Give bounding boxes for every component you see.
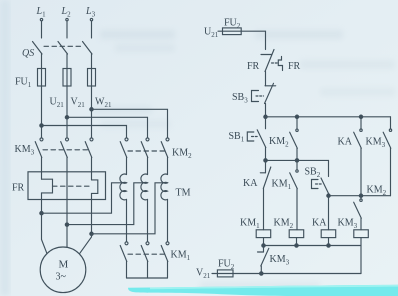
bleed-through smudge top mid	[92, 30, 395, 290]
wire motor lead 3	[80, 234, 92, 254]
cyan strip bottom	[128, 285, 398, 296]
contact KM1 aux (NO)	[290, 160, 298, 229]
FR thermal actuator symbol	[272, 57, 283, 71]
switch QS pole 3 blade	[83, 42, 93, 55]
node L1 terminal	[40, 18, 42, 20]
switch QS pole 1 blade	[33, 42, 43, 55]
wire QS1 to FU1	[41, 54, 43, 69]
svg-text:KA: KA	[338, 137, 353, 148]
wire tap line 1 to TM	[42, 183, 127, 213]
contact KA aux (NO right)	[354, 117, 362, 196]
wire L3 to QS	[91, 21, 93, 38]
FR heater element phase 3	[92, 180, 98, 234]
node top bus KA tap	[359, 115, 362, 118]
wire L2 to QS	[66, 21, 68, 38]
thermal relay FR box	[28, 172, 106, 200]
autotransformer TM coil 1	[120, 158, 127, 242]
fuse FU1 phase 2	[63, 69, 71, 87]
fuse FU2 bottom	[217, 270, 233, 277]
wire KM2 coil to bus	[296, 238, 298, 246]
wire KM1 coil to bus	[263, 238, 265, 246]
node L3 terminal	[90, 18, 92, 20]
node A dot	[264, 115, 267, 118]
wire motor lead 2	[66, 225, 68, 248]
node bus C SB2	[327, 194, 330, 197]
wire FU2 to FR contact	[241, 31, 265, 49]
button SB1 (NO start)	[257, 117, 266, 161]
coil KA	[321, 230, 336, 238]
svg-text:QS: QS	[22, 48, 34, 59]
wire V21 phase 2 vertical	[66, 86, 68, 138]
wire coil bus	[264, 245, 362, 247]
contact KM3 (NC interlock bottom)	[258, 246, 269, 274]
contactor KM3 pole 3	[85, 138, 93, 158]
switch QS pole 2 blade	[58, 42, 68, 55]
wire motor lead 1	[42, 213, 48, 254]
wire V21 to FU2	[212, 273, 217, 275]
thermal contact FR (NC)	[261, 50, 274, 72]
KM2 linkage dashed	[128, 150, 166, 152]
contactor KM3 pole 2	[61, 138, 69, 158]
node bus B left	[264, 159, 267, 162]
wire U21 phase 1 vertical	[41, 86, 43, 138]
SB1 actuator	[247, 132, 257, 141]
wire tap line 2 to TM	[67, 183, 148, 225]
node coil bus KM2	[295, 244, 298, 247]
wire bus B	[266, 159, 329, 161]
svg-text:M: M	[59, 258, 69, 270]
node bottom line	[260, 272, 263, 275]
autotransformer TM coil 3	[161, 158, 168, 242]
wire tap2 to KM2 pole2	[67, 117, 148, 138]
fuse FU1 phase 3	[88, 69, 96, 87]
node motor wire 3	[90, 232, 93, 235]
contact KA (NC)	[260, 160, 271, 229]
wire FR to SB3	[265, 72, 267, 86]
motor M circle	[40, 247, 86, 293]
KM3 linkage dashed	[43, 149, 90, 151]
node coil bus KA	[327, 244, 330, 247]
contact KM3 aux (NO right)	[383, 117, 391, 196]
SB3 actuator	[252, 91, 264, 102]
wire SB3 to node A	[265, 104, 267, 117]
contactor KM3 pole 1	[35, 138, 43, 158]
wire U21 to FU2	[218, 30, 223, 32]
svg-text:TM: TM	[176, 188, 191, 199]
wire bus C	[329, 195, 391, 197]
FR heater element phase 1	[42, 179, 53, 213]
contact KM2 aux (NO bottom right)	[354, 196, 362, 230]
wire W21 phase 3 vertical	[91, 86, 93, 138]
switch QS linkage dashed	[44, 45, 81, 47]
svg-text:FR: FR	[12, 183, 25, 194]
svg-text:KA: KA	[243, 178, 258, 189]
node bus B mid	[295, 159, 298, 162]
svg-text:FR: FR	[288, 61, 301, 72]
left edge shading	[0, 0, 10, 296]
wire top bus	[266, 116, 391, 118]
SB2 actuator	[312, 180, 322, 189]
wire bottom line	[233, 273, 361, 275]
node tap phase 2	[65, 116, 68, 119]
wire SB2 to KA coil	[328, 196, 330, 230]
contactor KM2 pole 1	[120, 138, 128, 158]
coil KM2	[289, 230, 304, 238]
coil KM1	[256, 230, 271, 238]
contactor KM2 pole 2	[141, 138, 149, 158]
autotransformer TM coil 2	[141, 158, 148, 242]
wire QS3 to FU1	[91, 54, 93, 69]
svg-text:FR: FR	[247, 61, 260, 72]
node tap phase 3	[90, 108, 93, 111]
svg-text:KA: KA	[312, 218, 327, 229]
svg-text:3~: 3~	[56, 271, 67, 282]
fuse FU1 phase 1	[38, 69, 46, 87]
node top bus KM2 tap	[295, 115, 298, 118]
KM1 linkage dashed	[128, 253, 166, 255]
wire KM1 star bus	[127, 277, 168, 279]
wire KM3 coil down	[360, 238, 362, 274]
wire tap line 3 to TM	[92, 183, 168, 234]
contactor KM1 pole 1	[120, 242, 128, 278]
contact KM2 aux (NO self-hold)	[290, 117, 298, 161]
wire L1 to QS	[41, 21, 43, 38]
FR linkage dashed	[53, 185, 90, 187]
node motor wire 1	[40, 212, 43, 215]
coil KM3	[354, 230, 369, 238]
button SB2 (NO)	[321, 160, 329, 195]
contactor KM1 pole 3	[161, 242, 169, 278]
node L2 terminal	[66, 18, 68, 20]
node motor wire 2	[65, 223, 68, 226]
node bus C KA	[359, 194, 362, 197]
button SB3 (NC stop)	[265, 83, 276, 103]
wire QS2 to FU1	[66, 54, 68, 69]
fuse FU2 top	[223, 28, 242, 35]
node tap phase 1	[40, 124, 43, 127]
wire KA coil to bus	[328, 238, 330, 246]
node coil bus KM1	[262, 244, 265, 247]
wire tap3 to KM2 pole3	[92, 109, 168, 138]
wire KM3 poles into FR box	[41, 158, 43, 180]
contactor KM2 pole 3	[161, 138, 169, 158]
contactor KM1 pole 2	[141, 242, 149, 278]
wire tap1 to KM2 pole1	[42, 126, 127, 138]
